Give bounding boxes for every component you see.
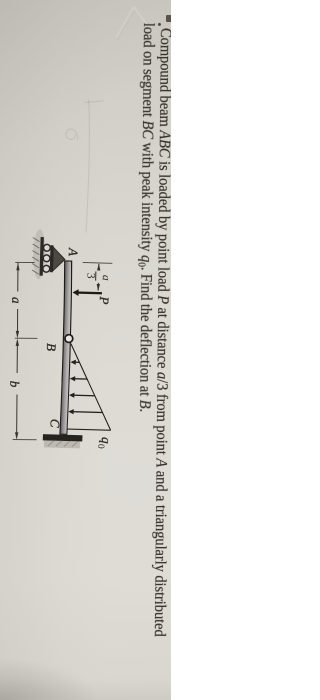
fixed support wall at C (43, 434, 83, 441)
extension line C bottom (13, 439, 37, 441)
extension line at A (above beam) (83, 262, 113, 265)
extension line A bottom (15, 261, 34, 263)
clipped bullet mark before line 1 (166, 15, 172, 22)
roller support A: rollers (43, 244, 51, 272)
paper shading wedge top-left (0, 0, 171, 700)
text line 1 (150, 28, 174, 637)
text line 2 (135, 23, 157, 412)
dimension line segments (17, 263, 18, 435)
triangular load right edge (67, 429, 110, 430)
internal hinge B (65, 335, 73, 343)
paper crease top-right (0, 0, 171, 700)
svg-text:P: P (97, 295, 112, 304)
dimension group (a, b below beam) (7, 262, 38, 440)
bottom-left corner shadow (0, 0, 171, 700)
svg-text:A: A (66, 247, 81, 256)
load P arrow (78, 291, 102, 294)
extension line B bottom (15, 337, 37, 339)
svg-text:0: 0 (95, 444, 105, 449)
svg-text:C: C (47, 419, 62, 428)
svg-text:B: B (44, 343, 59, 351)
beam ABC (60, 261, 73, 434)
period of clipped item number (158, 23, 161, 26)
dimension arrowheads (15, 263, 20, 440)
roller support A: hatch strokes (32, 238, 40, 275)
dimension a/3 arrowheads (97, 263, 101, 270)
fraction a/3 (84, 271, 112, 281)
A support shadow (33, 229, 46, 279)
wall C hatch (48, 441, 78, 447)
triangular load arrows (68, 359, 104, 415)
svg-text:a: a (100, 275, 112, 281)
roller support A: triangle (53, 247, 66, 272)
triangular load hypotenuse (68, 344, 113, 431)
svg-text:a: a (9, 297, 24, 304)
roller support A: base plate (50, 245, 54, 272)
svg-text:b: b (7, 381, 22, 388)
svg-text:3: 3 (84, 273, 96, 279)
pencil scribble marks (66, 100, 103, 232)
beam assembly group (27, 229, 120, 449)
roller support A: hatched ground (40, 237, 44, 276)
dimension a/3 line (97, 264, 100, 291)
